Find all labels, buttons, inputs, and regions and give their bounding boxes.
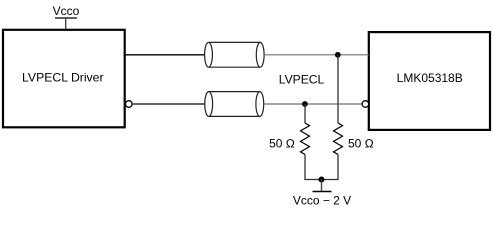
wire (Vcco stub to driver box)	[65, 18, 67, 30]
svg-text:Vcco − 2 V: Vcco − 2 V	[293, 194, 351, 208]
junction (termination rail center)	[319, 177, 325, 183]
wire (driver complementary output to bottom transmission line)	[132, 103, 205, 105]
svg-text:50 Ω: 50 Ω	[348, 136, 374, 150]
wire (bottom wire junction down to resistor R1)	[304, 104, 306, 123]
inverting bubble (LMK05318B complementary input)	[362, 101, 369, 108]
IC LMK05318B box	[369, 32, 490, 130]
wire (top transmission line to LMK05318B)	[264, 54, 369, 56]
svg-text:Vcco: Vcco	[53, 4, 80, 18]
wire (bottom rail joining R1 and R2)	[304, 179, 338, 181]
power Vcco - 2 V (termination rail symbol)	[293, 192, 351, 208]
transmission line T1 (top coax cylinder)	[205, 42, 265, 67]
wire (R1 bottom lead)	[304, 155, 306, 180]
wire (R2 bottom lead)	[337, 155, 339, 180]
wire (bottom transmission line to input bubble)	[264, 103, 362, 105]
svg-text:LVPECL Driver: LVPECL Driver	[22, 70, 103, 84]
power Vcco (top rail symbol)	[53, 4, 80, 18]
svg-text:LMK05318B: LMK05318B	[397, 71, 463, 85]
resistor R1 50 ohm (left zigzag)	[301, 123, 310, 154]
inverting bubble (driver complementary output)	[126, 101, 133, 108]
svg-text:LVPECL: LVPECL	[279, 72, 325, 86]
junction (top wire to R2 tap)	[335, 52, 341, 58]
wire (stub down to Vcco-2V rail)	[321, 180, 323, 192]
wire (driver output true to top transmission line)	[125, 54, 205, 56]
transmission line T2 (bottom coax cylinder)	[205, 92, 264, 117]
svg-text:50 Ω: 50 Ω	[269, 136, 295, 150]
wire (top wire junction down to resistor R2, crosses bottom wire)	[337, 55, 339, 123]
junction (bottom wire to R1 tap)	[302, 101, 308, 107]
resistor R2 50 ohm (right zigzag)	[334, 123, 343, 154]
IC LVPECL Driver box	[3, 30, 125, 128]
